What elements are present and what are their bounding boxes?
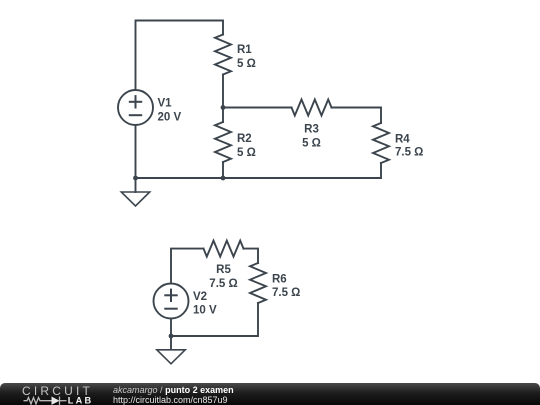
wire R6 bottom to lower bottom rail [171, 303, 258, 336]
wire R4 bottom to bottom rail [223, 163, 381, 178]
resistor R3 [292, 100, 332, 116]
wire top rail (V1 top to R1 top) [136, 21, 224, 91]
wire bottom rail to V1 bottom [136, 125, 224, 178]
svg-text:R5: R5 [216, 264, 231, 276]
CircuitLab logo [0, 383, 100, 405]
wire R1 bottom to node A [222, 75, 224, 108]
svg-text:5 Ω: 5 Ω [237, 147, 256, 159]
svg-text:7.5 Ω: 7.5 Ω [272, 287, 300, 299]
junction node A (223,107.5) [221, 105, 226, 110]
wire R2 bottom to bottom rail [222, 162, 224, 178]
wire lower top rail (V2 top to R5) [171, 249, 204, 284]
wire R3 to R4 top [332, 108, 382, 124]
ground symbol (lower circuit) [157, 350, 185, 364]
svg-text:V1: V1 [158, 98, 173, 110]
wire R5 to R6 top [244, 249, 259, 263]
svg-text:V2: V2 [193, 291, 207, 303]
wire mid rail (node A to R3) [223, 107, 292, 109]
logo resistor-diode squiggle [24, 397, 67, 405]
svg-text:5 Ω: 5 Ω [237, 58, 256, 70]
wire ground stub (lower circuit) [170, 336, 172, 350]
svg-text:10 V: 10 V [193, 305, 217, 317]
resistor R5 [204, 241, 244, 257]
logo diode triangle [52, 397, 60, 405]
svg-text:20 V: 20 V [158, 112, 182, 124]
svg-text:R1: R1 [237, 44, 252, 56]
ground symbol (top circuit) [121, 192, 149, 206]
wire node A to R2 top [222, 108, 224, 123]
svg-text:LAB: LAB [68, 395, 93, 405]
junction node (135.5,178) [133, 176, 138, 181]
resistor R2 [215, 122, 231, 162]
wire V1 bottom stub to ground [135, 178, 137, 192]
junction node (171,336) [169, 334, 174, 339]
svg-text:R3: R3 [304, 123, 319, 135]
resistor R6 [250, 263, 266, 303]
resistor R4 [373, 123, 389, 163]
svg-text:7.5 Ω: 7.5 Ω [395, 147, 423, 159]
junction node (223,178) [221, 176, 226, 181]
voltage source V1 [118, 90, 153, 125]
footer bar [0, 383, 540, 405]
svg-text:7.5 Ω: 7.5 Ω [209, 278, 237, 290]
svg-text:R2: R2 [237, 133, 252, 145]
wire V2 bottom to lower bottom rail [170, 319, 172, 337]
svg-text:R6: R6 [272, 274, 287, 286]
resistor R1 [215, 35, 231, 75]
voltage source V2 [154, 284, 189, 319]
footer credit text [113, 385, 234, 405]
svg-text:5 Ω: 5 Ω [302, 138, 321, 150]
svg-text:R4: R4 [395, 133, 410, 145]
